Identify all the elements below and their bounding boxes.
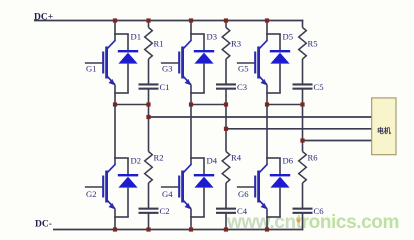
junction motor-feed-Q5: [300, 138, 304, 142]
svg-text:G6: G6: [238, 189, 249, 199]
junction phase-RC-Q5: [300, 102, 304, 106]
wire phase horizontal leg Q1: [114, 104, 149, 106]
wire emitter Q5: [266, 85, 268, 94]
resistor R5: [299, 28, 307, 60]
diode D6: [270, 174, 290, 188]
wire diode anode D1: [127, 64, 129, 93]
diode D1: [118, 50, 138, 64]
junction phase-Q3: [189, 102, 193, 106]
wire R-C link R6: [302, 183, 304, 208]
wire R-C link R5: [302, 59, 304, 84]
diode D4: [194, 174, 214, 188]
transistor Q1 (IGBT): [85, 40, 115, 85]
svg-text:D5: D5: [283, 32, 294, 42]
wire R branch stub R1: [148, 20, 150, 28]
resistor R4: [222, 152, 230, 184]
svg-text:R3: R3: [231, 39, 241, 49]
wire collector drop Q4: [190, 105, 192, 166]
wire phase drop leg Q1: [114, 93, 116, 106]
transistor Q5 (IGBT): [237, 40, 267, 85]
junction phase-RC-Q1: [146, 102, 150, 106]
motor block 电机: [372, 98, 396, 155]
capacitor C6: [293, 208, 313, 214]
capacitor C2: [139, 208, 159, 214]
wire snubber node drop to motor line Q3: [225, 105, 227, 129]
wire C to DC- C4: [225, 214, 227, 231]
wire diode anode D5: [279, 64, 281, 93]
svg-text:C3: C3: [237, 82, 247, 92]
wire motor phase line W: [303, 140, 372, 142]
svg-text:D1: D1: [131, 32, 142, 42]
wire collector-diode link Q1: [114, 33, 129, 35]
wire emitter-anode link Q6: [266, 216, 281, 218]
junction DC+-Q5: [265, 18, 269, 22]
wire collector-diode link Q2: [114, 157, 129, 159]
resistor R3: [222, 28, 230, 60]
wire collector-diode link Q5: [266, 33, 281, 35]
wire motor phase line U: [149, 116, 372, 118]
watermark www.cntronics.com: [226, 212, 399, 233]
wire phase horizontal leg Q5: [266, 104, 303, 106]
junction phase-Q5: [265, 102, 269, 106]
wire R-C link R2: [148, 183, 150, 208]
wire collector drop Q1: [114, 20, 116, 41]
wire collector-diode link Q3: [190, 33, 205, 35]
resistor R2: [145, 152, 153, 184]
wire diode cathode stub D3: [203, 34, 205, 51]
resistor R6: [299, 152, 307, 184]
wire collector drop Q5: [266, 20, 268, 41]
junction DC+-Q3: [189, 18, 193, 22]
wire snubber node drop to motor line Q1: [148, 105, 150, 118]
wire phase drop leg Q5: [266, 93, 268, 106]
transistor Q3 (IGBT): [161, 40, 191, 85]
capacitor C1: [139, 83, 159, 89]
svg-text:电机: 电机: [377, 126, 391, 135]
junction DC--C-C4: [224, 227, 228, 231]
wire R-C link R1: [148, 59, 150, 84]
wire collector drop Q2: [114, 105, 116, 166]
wire R branch stub R3: [225, 20, 227, 28]
svg-text:C6: C6: [314, 206, 325, 216]
capacitor C4: [216, 208, 236, 214]
wire diode cathode stub D5: [279, 34, 281, 51]
junction DC+-Q1: [113, 18, 117, 22]
junction phase-RC-Q3: [224, 102, 228, 106]
junction DC+-R-R1: [146, 18, 150, 22]
junction DC--C-C2: [146, 227, 150, 231]
wire emitter Q4: [190, 209, 192, 218]
wire emitter Q2: [114, 209, 116, 218]
wire emitter-anode link Q3: [190, 92, 205, 94]
wire emitter Q1: [114, 85, 116, 94]
junction DC--Q6: [265, 227, 269, 231]
wire diode anode D6: [279, 188, 281, 217]
wire diode anode D4: [203, 188, 205, 217]
wire emitter-anode link Q5: [266, 92, 281, 94]
junction motor-feed-Q3: [224, 127, 228, 131]
wire diode cathode stub D4: [203, 158, 205, 175]
svg-text:R1: R1: [154, 39, 164, 49]
wire emitter to DC- Q4: [190, 217, 192, 230]
wire emitter Q3: [190, 85, 192, 94]
capacitor C5: [293, 83, 313, 89]
wire diode anode D3: [203, 64, 205, 93]
wire diode anode D2: [127, 188, 129, 217]
wire diode cathode stub D2: [127, 158, 129, 175]
transistor Q4 (IGBT): [161, 164, 191, 209]
wire emitter-anode link Q1: [114, 92, 129, 94]
wire C to DC- C2: [148, 214, 150, 231]
wire emitter-anode link Q4: [190, 216, 205, 218]
wire diode cathode stub D1: [127, 34, 129, 51]
svg-text:C2: C2: [160, 206, 170, 216]
wire C to phase C3: [225, 90, 227, 106]
wire R-C link R3: [225, 59, 227, 84]
wire DC- rail: [53, 229, 303, 231]
wire diode cathode stub D6: [279, 158, 281, 175]
wire motor phase line V: [226, 128, 372, 130]
transistor Q2 (IGBT): [85, 164, 115, 209]
transistor Q6 (IGBT): [237, 164, 267, 209]
wire R-C link R4: [225, 183, 227, 208]
svg-text:D6: D6: [283, 156, 294, 166]
svg-text:D4: D4: [207, 156, 218, 166]
resistor R1: [145, 28, 153, 60]
wire collector-diode link Q4: [190, 157, 205, 159]
svg-text:G2: G2: [86, 189, 97, 199]
wire motor node to R R2: [148, 117, 150, 152]
wire snubber node drop to motor line Q5: [302, 105, 304, 141]
svg-text:D3: D3: [207, 32, 218, 42]
junction DC+-R-R3: [224, 18, 228, 22]
wire collector drop Q3: [190, 20, 192, 41]
wire motor node to R R4: [225, 129, 227, 152]
wire C to DC- C6: [302, 214, 304, 231]
wire emitter-anode link Q2: [114, 216, 129, 218]
capacitor C3: [216, 83, 236, 89]
diode D5: [270, 50, 290, 64]
wire emitter to DC- Q6: [266, 217, 268, 230]
wire C to phase C5: [302, 90, 304, 106]
svg-text:R5: R5: [308, 39, 318, 49]
wire emitter to DC- Q2: [114, 217, 116, 230]
svg-text:G3: G3: [162, 64, 173, 74]
wire phase horizontal leg Q3: [190, 104, 227, 106]
wire C to phase C1: [148, 90, 150, 106]
svg-text:C1: C1: [160, 82, 170, 92]
svg-text:R4: R4: [231, 153, 242, 163]
wire R branch stub R5: [302, 20, 304, 28]
wire DC+ rail: [34, 20, 303, 22]
svg-text:G5: G5: [238, 64, 249, 74]
svg-text:G4: G4: [162, 189, 173, 199]
wire collector drop Q6: [266, 105, 268, 166]
svg-text:G1: G1: [86, 64, 97, 74]
svg-text:C4: C4: [237, 206, 248, 216]
svg-text:D2: D2: [131, 156, 142, 166]
junction DC--Q2: [113, 227, 117, 231]
svg-text:R6: R6: [308, 153, 319, 163]
junction DC--Q4: [189, 227, 193, 231]
wire phase drop leg Q3: [190, 93, 192, 106]
svg-text:DC-: DC-: [35, 220, 52, 230]
wire collector-diode link Q6: [266, 157, 281, 159]
diode D3: [194, 50, 214, 64]
svg-text:R2: R2: [154, 153, 164, 163]
wire emitter Q6: [266, 209, 268, 218]
svg-text:C5: C5: [314, 82, 324, 92]
wire motor node to R R6: [302, 141, 304, 152]
diode D2: [118, 174, 138, 188]
junction phase-Q1: [113, 102, 117, 106]
junction motor-feed-Q1: [146, 115, 150, 119]
